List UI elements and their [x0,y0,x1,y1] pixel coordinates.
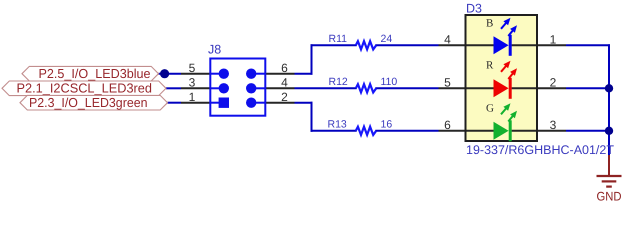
svg-text:110: 110 [381,76,398,88]
svg-text:R: R [486,60,494,72]
svg-text:D3: D3 [466,2,482,16]
svg-text:19-337/R6GHBHC-A01/2T: 19-337/R6GHBHC-A01/2T [466,143,614,157]
svg-text:1: 1 [189,90,196,104]
svg-text:4: 4 [444,33,451,47]
svg-text:2: 2 [281,90,288,104]
svg-text:6: 6 [281,61,288,75]
svg-text:R12: R12 [329,76,348,88]
svg-text:P2.3_I/O_LED3green: P2.3_I/O_LED3green [29,95,148,110]
svg-text:5: 5 [189,61,196,75]
svg-text:P2.1_I2CSCL_LED3red: P2.1_I2CSCL_LED3red [17,80,153,95]
svg-text:3: 3 [550,118,557,132]
svg-text:6: 6 [444,118,451,132]
svg-text:1: 1 [550,33,557,47]
svg-text:G: G [486,103,494,115]
svg-text:2: 2 [550,76,557,90]
svg-text:J8: J8 [208,43,221,57]
svg-text:P2.5_I/O_LED3blue: P2.5_I/O_LED3blue [39,66,151,81]
svg-text:R13: R13 [328,119,347,131]
svg-text:GND: GND [597,190,622,204]
svg-text:B: B [486,17,493,29]
svg-text:16: 16 [381,119,393,131]
svg-text:5: 5 [444,76,451,90]
svg-text:R11: R11 [329,33,348,45]
svg-text:3: 3 [189,76,196,90]
svg-text:24: 24 [381,33,393,45]
svg-text:4: 4 [281,76,288,90]
